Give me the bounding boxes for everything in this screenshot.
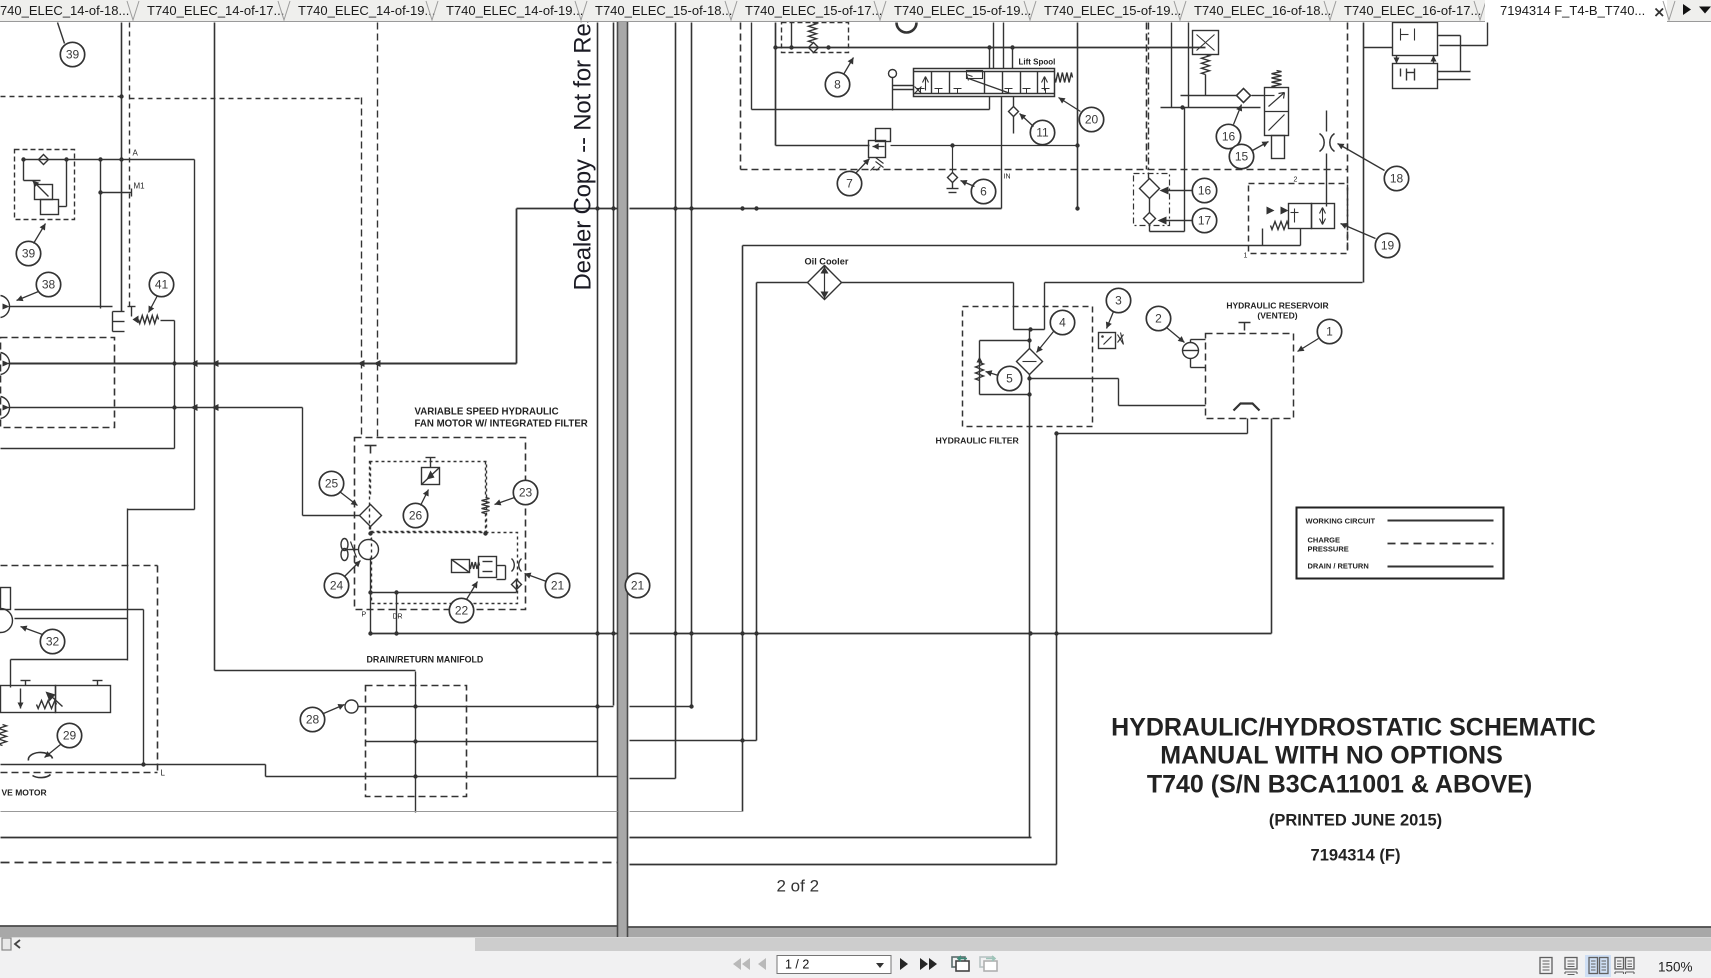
svg-text:2 of 2: 2 of 2 <box>777 877 820 896</box>
svg-text:3: 3 <box>1115 294 1122 308</box>
svg-text:5: 5 <box>1006 372 1013 386</box>
svg-text:P: P <box>362 612 367 619</box>
svg-text:4: 4 <box>1059 316 1066 330</box>
svg-text:CHARGE: CHARGE <box>1308 536 1341 545</box>
svg-text:38: 38 <box>42 278 56 292</box>
svg-text:Dealer Copy -- Not for Resale: Dealer Copy -- Not for Resale <box>570 22 597 291</box>
svg-text:HYDRAULIC FILTER: HYDRAULIC FILTER <box>936 436 1020 446</box>
svg-text:25: 25 <box>325 477 339 491</box>
svg-text:7: 7 <box>846 177 853 191</box>
svg-text:7194314 (F): 7194314 (F) <box>1311 847 1401 865</box>
svg-text:6: 6 <box>980 185 987 199</box>
svg-text:HYDRAULIC/HYDROSTATIC SCHEMATI: HYDRAULIC/HYDROSTATIC SCHEMATIC <box>1111 714 1596 742</box>
svg-text:MANUAL WITH NO OPTIONS: MANUAL WITH NO OPTIONS <box>1160 742 1503 770</box>
svg-text:21: 21 <box>551 579 565 593</box>
svg-text:VE MOTOR: VE MOTOR <box>2 788 47 798</box>
svg-text:21: 21 <box>631 579 645 593</box>
svg-text:2: 2 <box>1155 312 1162 326</box>
svg-text:16: 16 <box>1198 184 1212 198</box>
svg-text:A: A <box>133 149 139 158</box>
svg-text:HYDRAULIC RESERVOIR: HYDRAULIC RESERVOIR <box>1226 301 1328 311</box>
svg-text:150%: 150% <box>1658 960 1693 975</box>
svg-text:M1: M1 <box>134 182 146 191</box>
svg-text:8: 8 <box>834 78 841 92</box>
svg-text:DRAIN / RETURN: DRAIN / RETURN <box>1308 562 1369 571</box>
svg-text:Oil Cooler: Oil Cooler <box>805 257 849 267</box>
svg-text:39: 39 <box>22 247 36 261</box>
svg-text:32: 32 <box>46 635 60 649</box>
svg-text:23: 23 <box>519 486 533 500</box>
svg-text:22: 22 <box>455 604 469 618</box>
svg-text:28: 28 <box>306 713 320 727</box>
svg-text:19: 19 <box>1381 239 1395 253</box>
svg-text:11: 11 <box>1036 126 1049 140</box>
svg-text:20: 20 <box>1085 113 1099 127</box>
svg-text:L: L <box>161 769 166 778</box>
svg-text:Lift Spool: Lift Spool <box>1019 58 1056 67</box>
svg-text:24: 24 <box>330 579 344 593</box>
svg-text:(VENTED): (VENTED) <box>1257 311 1297 321</box>
svg-text:15: 15 <box>1235 150 1249 164</box>
svg-text:1 / 2: 1 / 2 <box>785 958 809 972</box>
svg-text:18: 18 <box>1390 172 1404 186</box>
svg-text:DR: DR <box>393 614 403 621</box>
svg-text:FAN MOTOR W/ INTEGRATED FILTER: FAN MOTOR W/ INTEGRATED FILTER <box>415 419 588 430</box>
svg-text:16: 16 <box>1222 130 1236 144</box>
svg-text:1: 1 <box>1244 253 1248 260</box>
svg-text:17: 17 <box>1198 214 1212 228</box>
svg-text:WORKING CIRCUIT: WORKING CIRCUIT <box>1306 517 1376 526</box>
svg-text:41: 41 <box>155 278 169 292</box>
svg-text:IN: IN <box>1004 174 1011 181</box>
svg-text:VARIABLE SPEED HYDRAULIC: VARIABLE SPEED HYDRAULIC <box>415 407 559 418</box>
svg-text:PRESSURE: PRESSURE <box>1308 545 1349 554</box>
svg-text:2: 2 <box>1294 177 1298 184</box>
svg-text:T740 (S/N B3CA11001 & ABOVE): T740 (S/N B3CA11001 & ABOVE) <box>1147 771 1532 799</box>
svg-text:DRAIN/RETURN MANIFOLD: DRAIN/RETURN MANIFOLD <box>367 655 484 665</box>
svg-text:39: 39 <box>66 48 80 62</box>
svg-text:(PRINTED JUNE 2015): (PRINTED JUNE 2015) <box>1269 812 1442 830</box>
svg-text:26: 26 <box>409 509 423 523</box>
svg-text:1: 1 <box>1326 325 1333 339</box>
svg-text:29: 29 <box>63 729 77 743</box>
